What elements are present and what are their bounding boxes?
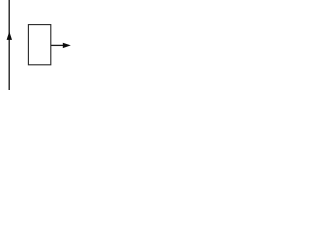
arrowhead: right-pointing output arrow <box>63 43 71 48</box>
wire: horizontal output line <box>51 44 64 46</box>
arrowhead: upward flow arrow on vertical wire <box>7 31 12 40</box>
block: rectangle <box>28 25 50 65</box>
wire: vertical line full height <box>8 0 10 90</box>
